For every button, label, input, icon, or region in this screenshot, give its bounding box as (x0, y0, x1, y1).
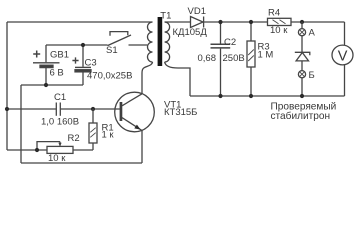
diode VD1 triangle (191, 17, 204, 28)
capacitor C2 bottom plate (211, 47, 231, 49)
svg-text:10 к: 10 к (48, 153, 66, 164)
resistor R3 bottom lead (250, 67, 252, 96)
node C2 bottom (218, 94, 222, 98)
wire diode to top-right corner (204, 21, 345, 23)
resistor R2 wiper arrow (58, 143, 61, 147)
wire battery branch (y=45) right of S1 (129, 44, 148, 46)
battery GB1 bottom lead (45, 68, 47, 85)
svg-text:стабилитрон: стабилитрон (271, 110, 331, 122)
wire right edge bottom (344, 65, 346, 96)
node C2 top (218, 20, 222, 24)
wire secondary top to diode (165, 21, 191, 23)
capacitor C2 top plate (211, 43, 231, 45)
svg-text:С2: С2 (224, 37, 236, 48)
wire left rail (6, 22, 8, 150)
svg-text:КД105Д: КД105Д (173, 27, 208, 38)
capacitor C1 right plate (59, 103, 61, 116)
terminal A cross (300, 30, 305, 35)
capacitor C3 top lead (82, 45, 84, 67)
wire right edge top (344, 22, 346, 45)
node R3 bottom (249, 94, 253, 98)
plus sign GB1 (33, 51, 40, 58)
wire bottom-left to R2 (7, 149, 47, 151)
svg-text:КТ315Б: КТ315Б (164, 107, 197, 118)
capacitor C2 bottom lead (220, 49, 222, 96)
terminal B cross (300, 72, 305, 77)
zener VD2 triangle (296, 53, 308, 61)
transformer T1 secondary winding (165, 22, 170, 62)
node C3 top junction (81, 43, 85, 47)
transformer T1 core (158, 17, 163, 66)
capacitor C3 top plate (75, 66, 91, 68)
wire zener to terminal B (301, 61, 303, 71)
capacitor C2 top lead (220, 22, 222, 44)
svg-text:Б: Б (309, 70, 315, 81)
svg-text:1 М: 1 М (258, 50, 274, 61)
resistor R3 top lead (250, 22, 252, 41)
svg-text:VD1: VD1 (188, 6, 206, 17)
transistor VT1 emitter stroke (122, 118, 142, 131)
node zener chain top (300, 20, 304, 24)
wire battery branch (y=45) left of S1 (46, 44, 108, 46)
terminal B circle (298, 71, 305, 78)
wire base (C1 to transistor) (61, 108, 120, 110)
wire top rail (7, 21, 153, 23)
svg-text:10 к: 10 к (270, 25, 288, 36)
transistor VT1 collector stroke (122, 94, 142, 106)
node battery negative junction (44, 83, 48, 87)
switch S1 bracket (110, 32, 128, 36)
diode VD1 cathode bar (203, 17, 205, 28)
battery GB1 long plate (33, 62, 60, 64)
resistor R3 hatch (248, 50, 254, 62)
wire battery bottom (y=85) (21, 84, 83, 86)
svg-text:С1: С1 (54, 92, 66, 103)
svg-text:S1: S1 (106, 45, 118, 56)
svg-text:GB1: GB1 (50, 50, 69, 61)
wire B to bus (301, 78, 303, 96)
capacitor C3 bottom lead (82, 72, 84, 85)
svg-text:0,68: 0,68 (198, 53, 217, 64)
svg-text:R2: R2 (68, 133, 80, 144)
svg-text:470,0х25В: 470,0х25В (87, 71, 132, 82)
wire emitter drop (141, 131, 143, 164)
voltmeter PA1 circle (332, 45, 353, 65)
resistor R4 hatch (273, 20, 286, 24)
node R2 wiper junction (35, 148, 39, 152)
resistor R2 body (47, 146, 73, 153)
wire primary bottom lead to collector (142, 62, 153, 94)
wire A to zener (301, 36, 303, 52)
svg-text:С3: С3 (85, 58, 97, 69)
transistor VT1 base bar (120, 102, 123, 121)
wire to terminal A (301, 22, 303, 29)
wire R1 to R2 (73, 149, 93, 151)
resistor R4 body (268, 18, 292, 25)
transistor VT1 emitter arrow (134, 125, 140, 130)
node left rail base junction (5, 107, 9, 111)
resistor R1 body (89, 123, 97, 143)
capacitor C1 left plate (55, 103, 57, 116)
wire bottom rail (21, 162, 142, 164)
resistor R2 wiper (37, 142, 60, 150)
resistor R3 body (247, 41, 255, 67)
resistor R1 top lead (92, 109, 94, 123)
svg-text:1 к: 1 к (102, 130, 115, 141)
transistor VT1 circle (115, 92, 155, 132)
node zener chain bottom (300, 94, 304, 98)
wire secondary bottom lead (165, 62, 190, 96)
svg-text:R4: R4 (268, 7, 280, 18)
svg-text:6 В: 6 В (50, 68, 64, 79)
zener VD2 cathode bar (295, 52, 310, 55)
svg-text:Т1: Т1 (160, 11, 171, 22)
capacitor C3 bottom plate (75, 70, 91, 72)
resistor R1 hatch (90, 128, 95, 138)
battery GB1 top lead (45, 45, 47, 62)
svg-text:1,0 160В: 1,0 160В (41, 117, 79, 128)
wire GB1 negative drop (20, 85, 22, 163)
node R3 top (249, 20, 253, 24)
switch S1 blade (108, 35, 132, 46)
node R1 top junction (91, 107, 95, 111)
wire bottom bus (190, 95, 345, 97)
svg-text:250В: 250В (223, 53, 245, 64)
transformer T1 primary winding (148, 22, 153, 62)
wire base (left rail to C1) (7, 108, 56, 110)
battery GB1 short plate (40, 65, 53, 67)
resistor R1 bottom lead (92, 143, 94, 150)
svg-text:V: V (338, 48, 348, 64)
terminal A circle (298, 29, 305, 36)
plus sign C3 (72, 57, 78, 63)
svg-text:А: А (309, 28, 316, 39)
